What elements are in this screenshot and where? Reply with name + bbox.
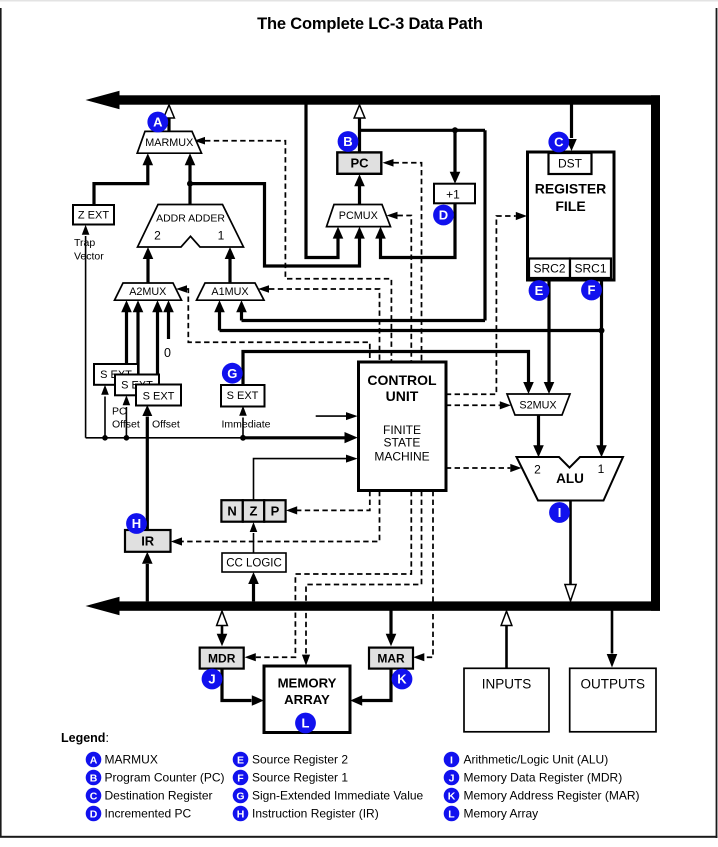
node J marker — [202, 669, 223, 690]
svg-text:CONTROL: CONTROL — [367, 372, 437, 388]
bus right vertical bar — [651, 95, 660, 611]
mux PCMUX — [327, 205, 391, 227]
arrowhead MAR into MEMORY — [350, 695, 362, 706]
svg-text:ADDR ADDER: ADDR ADDER — [156, 213, 225, 225]
svg-text:Incremented PC: Incremented PC — [105, 806, 192, 820]
wire ZEXT out to MARMUX left input — [94, 165, 148, 205]
register IR — [125, 530, 171, 552]
svg-text:L: L — [302, 716, 310, 731]
svg-text:Memory Array: Memory Array — [464, 806, 539, 820]
wire CC LOGIC to NZP — [253, 533, 255, 553]
arrowhead into PCMUX middle — [354, 227, 365, 239]
register P — [264, 500, 285, 522]
svg-text:REGISTER: REGISTER — [535, 181, 607, 197]
svg-text:B: B — [90, 772, 98, 784]
svg-text:2: 2 — [154, 229, 161, 243]
svg-text:MEMORY: MEMORY — [278, 676, 337, 691]
svg-text:G: G — [236, 790, 244, 802]
box S EXT pcoffset11 — [94, 364, 138, 385]
arrowhead bus into PCMUX left — [333, 227, 344, 239]
svg-text:MARMUX: MARMUX — [105, 752, 158, 766]
arrowhead NZP into CONTROL UNIT — [346, 455, 358, 463]
hollow arrowhead ALU to bus — [565, 585, 576, 602]
node E marker — [529, 280, 550, 301]
svg-text:I: I — [450, 754, 453, 766]
svg-text:UNIT: UNIT — [386, 388, 419, 404]
wire MDR bidirectional bus link — [221, 623, 224, 636]
junction dot +1 branch — [452, 127, 458, 133]
svg-text:MACHINE: MACHINE — [374, 449, 429, 463]
port SRC2 — [529, 259, 570, 279]
legend circle B — [86, 770, 102, 786]
port SRC1 — [570, 259, 611, 279]
node B marker — [338, 131, 359, 152]
legend circle G — [233, 788, 249, 804]
svg-text:Memory Data Register (MDR): Memory Data Register (MDR) — [464, 770, 623, 784]
wire INPUTS to bus — [505, 626, 508, 668]
arrowhead PC to A1MUX — [236, 300, 247, 312]
node A marker — [147, 112, 168, 133]
arrowhead into ALU control — [510, 464, 521, 472]
adder ADDR ADDER — [138, 205, 244, 248]
svg-text:DST: DST — [558, 157, 583, 171]
wire bus to DST of register file — [570, 105, 573, 139]
svg-text:Source Register 1: Source Register 1 — [252, 770, 348, 784]
svg-text:ARRAY: ARRAY — [284, 692, 330, 707]
svg-text:I: I — [558, 505, 562, 520]
svg-text:Program Counter (PC): Program Counter (PC) — [105, 770, 225, 784]
svg-text:E: E — [535, 283, 544, 298]
box Z EXT — [73, 205, 114, 225]
svg-text:Offset: Offset — [152, 419, 180, 431]
svg-text:SRC2: SRC2 — [533, 262, 565, 276]
arrowhead into MAR select — [413, 653, 424, 661]
svg-text:Instruction Register (IR): Instruction Register (IR) — [252, 806, 379, 820]
arrowhead bus into CC LOGIC — [248, 572, 259, 584]
legend circle E — [233, 752, 249, 768]
arrowhead bus into MAR — [386, 634, 397, 647]
svg-text:MARMUX: MARMUX — [145, 137, 193, 149]
svg-text:S EXT: S EXT — [227, 390, 259, 402]
legend circle H — [233, 806, 249, 822]
box CONTROL UNIT — [359, 362, 447, 491]
svg-text:The Complete LC-3 Data Path: The Complete LC-3 Data Path — [257, 15, 483, 33]
box S EXT pcoffset9 — [115, 375, 159, 396]
dashed wire CU to NZP load — [297, 491, 370, 511]
wire stub into CONTROL UNIT — [316, 415, 346, 417]
svg-text:1: 1 — [598, 462, 605, 476]
box CC LOGIC — [222, 553, 286, 572]
arrowhead bus into OUTPUTS — [607, 654, 618, 668]
junction dot SEXT1 tap — [102, 435, 108, 441]
hollow arrowhead PC to bus — [354, 105, 365, 118]
box INPUTS — [464, 668, 549, 732]
arrowhead SEXT1 to A2MUX — [121, 300, 132, 312]
junction dot SEXT4 tap — [240, 435, 246, 441]
svg-text:Legend:: Legend: — [61, 731, 109, 745]
svg-text:CC LOGIC: CC LOGIC — [226, 557, 282, 569]
wire PCMUX out to PC — [358, 186, 361, 205]
svg-text:E: E — [237, 754, 244, 766]
arrowhead bus into DST — [566, 139, 577, 151]
dashed wire CU to MEMORY control — [306, 491, 422, 655]
arrowhead IR line into CONTROL UNIT — [345, 432, 358, 443]
svg-text:A2MUX: A2MUX — [129, 286, 166, 298]
box OUTPUTS — [570, 668, 656, 732]
svg-text:MAR: MAR — [377, 651, 405, 665]
bus top left arrowhead — [86, 91, 120, 110]
svg-text:F: F — [588, 283, 596, 298]
arrowhead stub into CONTROL UNIT — [346, 412, 358, 420]
svg-text:Offset: Offset — [112, 419, 140, 431]
svg-text:INPUTS: INPUTS — [482, 677, 532, 692]
legend circle F — [233, 770, 249, 786]
arrowhead into PCMUX select — [387, 212, 398, 220]
wire SEXT3 out to A2MUX — [156, 312, 159, 385]
arrowhead SRC2 into S2MUX — [544, 382, 555, 394]
svg-text:IR: IR — [141, 534, 155, 549]
svg-text:Memory Address Register (MAR): Memory Address Register (MAR) — [464, 788, 640, 802]
svg-text:A1MUX: A1MUX — [211, 286, 248, 298]
svg-text:Z: Z — [250, 504, 258, 519]
svg-text:SRC1: SRC1 — [574, 262, 606, 276]
arrowhead into REGISTER FILE — [516, 212, 527, 220]
wire into incrementer +1 — [453, 130, 456, 172]
wire up to ZEXT input — [85, 236, 87, 438]
box REGISTER FILE — [528, 152, 615, 280]
register Z — [243, 500, 264, 522]
page bottom border — [0, 836, 717, 838]
wire SRC1 to A1MUX left input — [220, 312, 602, 331]
dashed wire CU to MAR load — [424, 491, 433, 657]
dashed wire CU to REGISTER FILE control — [446, 216, 516, 394]
svg-text:J: J — [208, 672, 215, 687]
dashed wire CU to MDR control — [256, 491, 411, 657]
dashed wire CU to PC load — [394, 163, 422, 361]
svg-text:G: G — [227, 366, 237, 381]
legend circle L — [444, 806, 460, 822]
legend circle I — [444, 752, 460, 768]
svg-text:FILE: FILE — [555, 198, 585, 214]
svg-text:N: N — [227, 504, 236, 519]
node K marker — [392, 669, 413, 690]
svg-text:Trap: Trap — [74, 237, 95, 249]
arrowhead IR into SEXT3 — [142, 405, 152, 416]
arrowhead immediate into S2MUX — [523, 382, 534, 394]
svg-text:H: H — [132, 516, 141, 531]
arrowhead into A2MUX select — [176, 285, 187, 293]
bus top bar — [114, 95, 660, 104]
dashed wire CU to A2MUX select — [187, 289, 370, 361]
wire +1 out to PCMUX right input — [381, 203, 456, 257]
incrementer +1 — [434, 184, 475, 204]
svg-text:+1: +1 — [446, 187, 460, 201]
svg-text:K: K — [448, 790, 456, 802]
arrowhead into S2MUX select — [500, 401, 511, 409]
node H marker — [126, 513, 147, 534]
svg-text:Source Register 2: Source Register 2 — [252, 752, 348, 766]
mux A2MUX — [115, 283, 182, 300]
wire A1MUX out to ADDER input 1 — [228, 259, 231, 284]
arrowhead MDR into MEMORY — [252, 695, 264, 706]
arrowhead into SEXT2 — [123, 395, 131, 405]
node L marker — [295, 713, 316, 734]
box S EXT immediate — [221, 385, 265, 407]
arrowhead SRC1 to A1MUX — [214, 300, 225, 312]
port DST — [549, 153, 592, 174]
wire PC to A1MUX right input — [242, 130, 486, 320]
svg-text:D: D — [90, 808, 98, 820]
alu ALU — [517, 457, 624, 501]
arrowhead SEXT2 to A2MUX — [133, 300, 144, 312]
svg-text:K: K — [397, 672, 407, 687]
arrowhead into SEXT4 — [239, 406, 247, 416]
svg-text:S2MUX: S2MUX — [519, 400, 556, 412]
wire bus to PCMUX left input — [306, 105, 338, 258]
wire SEXT2 out to A2MUX — [136, 312, 139, 375]
svg-text:H: H — [237, 808, 245, 820]
arrowhead CC LOGIC into NZP — [250, 522, 258, 532]
register PC — [337, 152, 381, 173]
page top gray edge — [0, 0, 718, 2]
box MEMORY ARRAY — [264, 666, 350, 733]
svg-text:Destination Register: Destination Register — [105, 788, 213, 802]
label Trap Vector — [74, 237, 104, 263]
arrowhead into PC select — [383, 159, 394, 167]
svg-text:1: 1 — [218, 229, 225, 243]
svg-text:PCMUX: PCMUX — [339, 210, 378, 222]
wire S2MUX out to ALU input 2 — [537, 415, 540, 446]
arrowhead into NZP — [286, 506, 297, 514]
junction dot SRC1 A1MUX branch — [599, 328, 605, 334]
wire bus to OUTPUTS — [611, 611, 614, 654]
arrowhead into A1MUX select — [258, 285, 269, 293]
arrowhead bus into MDR — [217, 634, 228, 647]
legend circle C — [86, 788, 102, 804]
svg-text:PC: PC — [112, 406, 127, 418]
wire to SEXT2 input — [125, 407, 127, 438]
arrowhead 0 to A2MUX — [163, 300, 174, 312]
bus bottom left arrowhead — [86, 597, 120, 616]
dashed wire CU to S2MUX select — [446, 404, 500, 406]
mux MARMUX — [137, 131, 201, 153]
arrowhead into SEXT1 — [101, 385, 109, 395]
register MAR — [369, 648, 413, 669]
arrowhead SRC1 into ALU — [596, 445, 607, 457]
wire IR distribution line thin — [86, 437, 243, 439]
svg-text:Z EXT: Z EXT — [78, 210, 109, 222]
label PC Offset — [112, 406, 140, 431]
node I marker — [549, 502, 570, 523]
arrowhead into +1 — [450, 172, 461, 184]
svg-text:A: A — [153, 115, 163, 130]
wire MDR to MEMORY ARRAY — [222, 669, 252, 701]
wire to SEXT1 input — [104, 397, 106, 438]
svg-text:S EXT: S EXT — [143, 391, 175, 403]
svg-text:PC: PC — [350, 156, 369, 171]
bus bottom bar — [114, 601, 660, 610]
node D marker — [433, 205, 454, 226]
svg-text:Immediate: Immediate — [222, 419, 271, 431]
svg-text:ALU: ALU — [556, 471, 584, 486]
wire ADDR ADDER out to MARMUX right input — [188, 165, 191, 205]
arrowhead into MEMORY top — [302, 655, 310, 666]
node F marker — [581, 280, 602, 301]
svg-text:A: A — [90, 754, 98, 766]
wire MARMUX out to bus — [167, 118, 170, 132]
dashed wire CU to ALU control — [446, 467, 511, 469]
dashed wire arrowheads — [171, 137, 527, 666]
wire bus to MAR — [389, 611, 392, 637]
hollow arrowhead MDR to bus — [217, 611, 228, 625]
wire IR out trunk to SEXT3 — [146, 417, 149, 531]
node G marker — [222, 363, 243, 384]
wire bus to CC LOGIC — [252, 584, 255, 602]
svg-text:P: P — [271, 504, 280, 519]
wire PC out to bus — [358, 118, 361, 153]
node C marker — [548, 132, 569, 153]
wire ALU out to bus — [569, 500, 572, 584]
wire NZP to CONTROL UNIT — [254, 459, 347, 500]
legend circle A — [86, 752, 102, 768]
arrowhead into MARMUX select — [194, 137, 205, 145]
arrowhead into MARMUX left — [143, 153, 154, 165]
arrowhead bus into IR — [142, 552, 153, 564]
register N — [221, 500, 242, 522]
arrowhead into ADDER 2 — [143, 247, 154, 259]
arrowhead into MARMUX right — [185, 153, 196, 165]
dashed wire CU to MARMUX select — [205, 141, 391, 361]
svg-text:F: F — [237, 772, 244, 784]
mux A1MUX — [197, 283, 265, 300]
wire bus to IR — [146, 564, 149, 601]
junction dot ADDER branch — [187, 181, 193, 187]
page left border — [0, 8, 2, 837]
arrowhead into ADDER 1 — [225, 247, 236, 259]
svg-text:L: L — [448, 808, 455, 820]
svg-text:D: D — [439, 208, 448, 223]
dashed wire CU to IR load — [182, 491, 380, 542]
box S EXT offset6 — [136, 385, 181, 406]
legend circle J — [444, 770, 460, 786]
svg-text:Vector: Vector — [74, 251, 104, 263]
hollow arrowhead MARMUX to bus — [164, 105, 175, 118]
svg-text:J: J — [449, 772, 455, 784]
arrowhead SEXT3 to A2MUX — [152, 300, 163, 312]
wire SEXT immediate out to S2MUX — [243, 352, 529, 386]
svg-text:Sign-Extended Immediate Value: Sign-Extended Immediate Value — [252, 788, 424, 802]
wire PC top branch to +1 — [360, 129, 486, 132]
wire SRC1 out to ALU input 1 — [600, 280, 603, 446]
svg-text:STATE: STATE — [384, 436, 421, 450]
wire ADDER branch to PCMUX middle input — [190, 184, 360, 266]
arrowhead into MDR select — [245, 653, 256, 661]
legend circle K — [444, 788, 460, 804]
svg-text:2: 2 — [534, 463, 541, 477]
svg-text:B: B — [343, 134, 352, 149]
hollow arrowhead INPUTS to bus — [501, 611, 512, 625]
dashed wire CU to A1MUX select — [269, 289, 380, 361]
wire MAR to MEMORY ARRAY — [362, 669, 391, 701]
wire SRC2 out to S2MUX — [547, 280, 550, 383]
junction dot SEXT2 tap — [124, 435, 130, 441]
dashed wire CU to PCMUX select — [398, 216, 412, 361]
page right border — [716, 8, 718, 838]
wire IR line thick into CONTROL UNIT — [243, 436, 345, 439]
mux S2MUX — [507, 394, 570, 415]
wire SEXT1 out to A2MUX — [125, 312, 128, 365]
svg-text:OUTPUTS: OUTPUTS — [581, 677, 646, 692]
svg-text:C: C — [554, 135, 564, 150]
register MDR — [200, 648, 244, 669]
arrowhead S2MUX into ALU — [533, 445, 544, 457]
legend circle D — [86, 806, 102, 822]
arrowhead PCMUX into PC — [354, 174, 365, 186]
svg-text:C: C — [90, 790, 98, 802]
svg-text:MDR: MDR — [208, 651, 236, 665]
arrowhead +1 into PCMUX right — [375, 227, 386, 239]
wire A2MUX out to ADDER input 2 — [146, 259, 149, 284]
arrowhead into IR select — [171, 537, 182, 545]
wire constant 0 to A2MUX — [167, 312, 170, 340]
arrowhead into ZEXT — [82, 225, 90, 235]
wire to SEXT4 immediate input — [242, 418, 244, 438]
svg-text:0: 0 — [164, 346, 171, 360]
svg-text:Arithmetic/Logic Unit (ALU): Arithmetic/Logic Unit (ALU) — [464, 752, 609, 766]
